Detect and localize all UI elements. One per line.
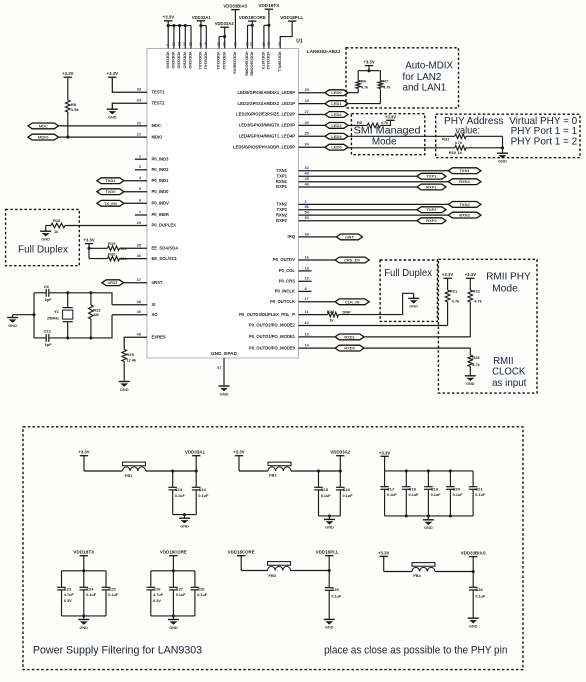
svg-text:P0_CRS: P0_CRS <box>279 279 295 284</box>
svg-text:VDD18CORE: VDD18CORE <box>245 52 250 77</box>
svg-text:P0_INCLK: P0_INCLK <box>275 289 295 294</box>
svg-text:TXD1: TXD1 <box>105 178 116 183</box>
svg-text:GND: GND <box>41 237 50 242</box>
svg-text:MDIO: MDIO <box>38 135 48 140</box>
power VDD18PLL output <box>316 550 339 572</box>
pin numbers VDD33IO 9 13 23 30 32 <box>166 42 193 46</box>
svg-text:0.1uF: 0.1uF <box>108 593 119 597</box>
svg-text:GND: GND <box>169 625 178 630</box>
svg-text:P0_COL: P0_COL <box>279 268 296 273</box>
svg-text:C17: C17 <box>387 486 395 491</box>
svg-text:13: 13 <box>171 42 175 46</box>
svg-text:RXP2: RXP2 <box>276 218 288 223</box>
wire crystal bottom right <box>68 315 112 338</box>
svg-text:RXN1: RXN1 <box>459 179 470 184</box>
svg-text:GND: GND <box>409 304 418 309</box>
svg-text:VDD18CORE: VDD18CORE <box>239 15 266 20</box>
svg-text:EE_SDA/SDA: EE_SDA/SDA <box>152 246 179 251</box>
wire TXP2 pin 56 <box>299 209 418 211</box>
svg-text:C16: C16 <box>343 487 351 492</box>
svg-text:4.7k: 4.7k <box>472 363 480 367</box>
svg-text:LED1/GPIO1/AMDIX2_LED1P: LED1/GPIO1/AMDIX2_LED1P <box>238 101 296 106</box>
svg-text:4.7uF: 4.7uF <box>153 593 164 597</box>
wire P0_IND3 stub pin 2 <box>135 158 147 160</box>
svg-text:SMI Managed: SMI Managed <box>354 126 421 137</box>
ground group2 <box>319 514 341 529</box>
capacitor C15 0.1uF <box>314 469 331 515</box>
svg-text:P0_IND3: P0_IND3 <box>152 156 170 161</box>
power VDD33BIAS output <box>461 551 486 574</box>
svg-text:VDD33A2: VDD33A2 <box>215 21 235 26</box>
svg-text:+3.3V: +3.3V <box>78 450 89 455</box>
power +3.3V FB2 input <box>233 450 244 471</box>
svg-text:17: 17 <box>305 296 309 301</box>
svg-text:LED3/GPIO3/MNGT0_LED3P: LED3/GPIO3/MNGT0_LED3P <box>239 123 296 128</box>
svg-text:R20: R20 <box>108 252 116 257</box>
svg-text:23: 23 <box>177 42 181 46</box>
IC U1 LAN9303 body <box>147 38 340 358</box>
svg-text:6pF: 6pF <box>45 343 52 347</box>
wire VDD18CORE bottom bus <box>151 614 195 617</box>
wire MDIO pin 21 <box>59 136 148 138</box>
svg-text:VDD33A1: VDD33A1 <box>203 52 208 71</box>
svg-text:Mode: Mode <box>492 284 518 295</box>
power +3.3V EEPROM pullups <box>83 237 94 258</box>
svg-text:GND: GND <box>180 524 189 529</box>
wire crystal left vertical <box>33 293 35 338</box>
svg-text:1M: 1M <box>93 312 99 317</box>
wire P0_OUTDV pin 16 <box>299 259 336 261</box>
svg-text:P0_OUTDV: P0_OUTDV <box>273 257 295 262</box>
svg-text:C20: C20 <box>453 486 461 491</box>
power +3.3V for TEST1 <box>107 71 118 77</box>
svg-text:RXP1: RXP1 <box>426 185 437 190</box>
svg-text:TXP1: TXP1 <box>426 174 437 179</box>
node MDC net tag <box>28 123 59 129</box>
node LED3 net tag <box>325 123 348 129</box>
ground C29 <box>324 619 335 629</box>
svg-text:51: 51 <box>266 42 270 46</box>
power +3.3V rail VDD33IO <box>163 15 191 26</box>
svg-text:0.1uF: 0.1uF <box>343 494 354 498</box>
svg-text:C21: C21 <box>475 486 483 491</box>
svg-text:RXD1: RXD1 <box>344 334 355 339</box>
svg-text:and LAN1: and LAN1 <box>403 82 447 93</box>
svg-text:VDD33A2: VDD33A2 <box>266 52 271 71</box>
svg-text:CRS_DV: CRS_DV <box>344 258 361 263</box>
svg-text:R31: R31 <box>442 137 450 142</box>
ground R25 <box>119 382 130 392</box>
svg-text:25MHz: 25MHz <box>47 316 59 320</box>
svg-text:P0_OUTD1/PO_MODE1: P0_OUTD1/PO_MODE1 <box>249 334 296 339</box>
wire TEST2 pin 34 <box>112 103 147 109</box>
crystal Y1 25MHz <box>47 291 73 339</box>
svg-text:VDD33IO: VDD33IO <box>177 52 182 69</box>
wire XI pin 38 <box>112 304 147 306</box>
svg-text:7: 7 <box>139 209 141 214</box>
svg-text:+3.3V: +3.3V <box>379 450 390 455</box>
resistor R9 4.7k SMI <box>348 120 391 128</box>
svg-text:4.7k: 4.7k <box>452 299 460 303</box>
power +3.3V FB1 input <box>78 450 89 471</box>
svg-text:0.1uF: 0.1uF <box>86 593 97 597</box>
capacitor C18 0.1uF <box>402 471 419 516</box>
svg-text:MDC: MDC <box>152 123 162 128</box>
wire P0_OUTD0 pin 14 <box>299 347 471 349</box>
node RXP1 net tag <box>417 184 446 190</box>
svg-text:C24: C24 <box>86 586 94 591</box>
svg-text:LED1: LED1 <box>331 101 342 106</box>
svg-text:R21: R21 <box>450 289 458 294</box>
power VDD18PLL <box>277 15 303 72</box>
ground R18 <box>40 226 51 242</box>
resistor R6 4.7k <box>348 71 369 93</box>
wire TXN2 pin 1 <box>299 203 449 205</box>
svg-text:P0_IND0: P0_IND0 <box>152 189 170 194</box>
ferrite bead FB2 <box>239 462 340 477</box>
svg-text:37: 37 <box>137 277 141 282</box>
svg-text:R10 1k: R10 1k <box>449 150 463 155</box>
svg-text:57: 57 <box>217 365 221 370</box>
capacitor C21 0.1uF <box>469 471 486 516</box>
ferrite bead FB4 <box>384 563 474 578</box>
svg-text:P0_INDV: P0_INDV <box>152 201 170 206</box>
power +3.3V FB4 input <box>378 550 389 571</box>
svg-text:41: 41 <box>278 42 282 46</box>
svg-text:nRST: nRST <box>152 280 163 285</box>
svg-text:nINT: nINT <box>345 234 354 239</box>
svg-text:TXN2: TXN2 <box>276 202 287 207</box>
svg-text:as input: as input <box>492 378 526 389</box>
wire P0_INDV pin 6 <box>124 202 147 204</box>
Full Duplex annotation box right <box>380 260 437 321</box>
svg-text:MDIO: MDIO <box>152 134 164 139</box>
svg-text:1k: 1k <box>54 229 59 234</box>
svg-text:LAN9303-ABZJ: LAN9303-ABZJ <box>307 49 341 54</box>
svg-text:VDD18PLL: VDD18PLL <box>277 52 282 73</box>
wire VDD18TX bottom bus <box>62 614 107 617</box>
node LED5 net tag <box>325 144 348 150</box>
capacitor C26 4.7uF <box>147 571 164 616</box>
wire GND_EPAD pin 57 <box>217 358 224 386</box>
svg-text:IRQ: IRQ <box>288 234 296 239</box>
node LED0 net tag <box>325 90 348 96</box>
wire LED5 pin 24 <box>299 146 326 148</box>
svg-text:TEST1: TEST1 <box>152 89 166 94</box>
power VDD18CORE caps <box>160 550 187 573</box>
svg-text:P0_DUPLEX: P0_DUPLEX <box>152 223 177 228</box>
wire P0_INER stub pin 7 <box>135 214 147 216</box>
svg-text:6pF: 6pF <box>45 298 52 302</box>
svg-text:R28: R28 <box>472 355 480 360</box>
svg-text:R18: R18 <box>53 218 61 223</box>
wire P0_OUTD1 pin 13 <box>299 336 471 338</box>
svg-text:R22: R22 <box>473 289 481 294</box>
svg-text:C18: C18 <box>409 486 417 491</box>
wire P0_IND1 pin 4 <box>124 180 147 182</box>
svg-text:VDD18TX: VDD18TX <box>261 52 266 70</box>
capacitor C6 6pF <box>34 284 68 302</box>
wire LED4 pin 25 <box>299 135 326 137</box>
svg-text:9: 9 <box>166 44 170 46</box>
node TXN1 net tag <box>448 168 481 174</box>
svg-text:56: 56 <box>233 42 237 46</box>
node LED2 net tag <box>325 112 348 118</box>
capacitor C23 4.7uF <box>57 571 74 616</box>
svg-text:VDD33IO: VDD33IO <box>182 52 187 69</box>
wire P0_OUTCLK pin 17 <box>299 301 336 303</box>
svg-text:TXP2: TXP2 <box>426 207 437 212</box>
wire P0_OUTD2 pin 12 <box>299 325 448 327</box>
wire P0_INCLK stub pin 8 <box>299 290 312 292</box>
svg-text:RXN2: RXN2 <box>276 212 288 217</box>
svg-text:48: 48 <box>261 42 265 46</box>
svg-text:TXP1: TXP1 <box>277 173 288 178</box>
wire XO pin 40 <box>112 314 147 316</box>
node CLK_IN net tag <box>335 299 369 305</box>
svg-text:Full Duplex: Full Duplex <box>18 245 69 256</box>
power VDD33A2 <box>215 21 235 70</box>
RMII PHY Mode annotation box <box>438 259 537 393</box>
svg-text:place as close as possible to: place as close as possible to the PHY pi… <box>324 645 507 657</box>
svg-text:VDD33IO: VDD33IO <box>165 52 170 69</box>
node RXD0 net tag <box>335 345 364 351</box>
power +3.3V SMI <box>385 114 396 120</box>
svg-text:LED3: LED3 <box>331 123 342 128</box>
power VDD18TX <box>73 550 94 573</box>
wire LED2 pin 27 <box>299 114 326 116</box>
pin names VDD33IO rotated <box>165 52 193 69</box>
svg-text:20: 20 <box>137 220 141 225</box>
svg-text:47: 47 <box>204 42 208 46</box>
node TXD0 net tag <box>97 189 124 195</box>
svg-text:XO: XO <box>152 312 159 317</box>
svg-text:FB1: FB1 <box>125 473 133 478</box>
svg-text:+3.3V: +3.3V <box>378 550 389 555</box>
wire MDC pin 22 <box>59 125 148 127</box>
svg-text:C19: C19 <box>431 486 439 491</box>
IC right pin name labels <box>233 90 296 350</box>
svg-text:52: 52 <box>217 42 221 46</box>
svg-text:P0_INER: P0_INER <box>152 212 169 217</box>
capacitor C30 0.1uF <box>469 572 486 619</box>
power +3.3V R22 <box>465 272 476 290</box>
svg-text:TXP2: TXP2 <box>277 207 288 212</box>
node RXN1 net tag <box>448 179 481 185</box>
svg-text:GND: GND <box>424 525 433 530</box>
svg-text:RXN2: RXN2 <box>459 213 470 218</box>
svg-text:0.1uF: 0.1uF <box>175 494 186 498</box>
svg-text:VDD33BIAS: VDD33BIAS <box>461 551 486 556</box>
svg-text:P0_OUTD3/DUPLEX_POL_P: P0_OUTD3/DUPLEX_POL_P <box>239 312 295 317</box>
capacitor C19 0.1uF <box>424 471 441 516</box>
wire VDD33IO pin drops <box>167 24 191 48</box>
svg-text:Mode: Mode <box>372 136 397 147</box>
svg-text:FB2: FB2 <box>269 473 277 478</box>
wire cap bank bottom bus <box>385 514 474 517</box>
power +3.3V R21 <box>442 272 453 290</box>
svg-text:+3.3V: +3.3V <box>363 60 374 65</box>
svg-text:GND: GND <box>220 391 229 396</box>
svg-text:C26: C26 <box>153 586 161 591</box>
svg-text:VDD18PLL: VDD18PLL <box>280 15 303 20</box>
power VDD33BIAS <box>223 4 247 75</box>
svg-text:VDD18PLL: VDD18PLL <box>316 550 339 555</box>
svg-text:RXD0: RXD0 <box>344 346 355 351</box>
ground TEST2 <box>107 109 118 119</box>
svg-text:VDD18CORE: VDD18CORE <box>160 550 187 555</box>
svg-text:CLK_IN: CLK_IN <box>345 299 360 304</box>
svg-text:VDD33A1: VDD33A1 <box>198 52 203 71</box>
svg-text:12.4k: 12.4k <box>127 358 137 362</box>
svg-text:GND: GND <box>466 381 475 386</box>
power +3.3V cap bank <box>379 450 390 471</box>
svg-text:XI: XI <box>152 302 156 307</box>
svg-text:0.1uF: 0.1uF <box>321 494 332 498</box>
svg-text:EE_SCL/SCL: EE_SCL/SCL <box>152 256 178 261</box>
svg-text:P0_IND1: P0_IND1 <box>152 178 170 183</box>
svg-text:C13: C13 <box>175 487 183 492</box>
power VDD18TX <box>258 3 279 70</box>
wire LED3 pin 26 <box>299 124 326 126</box>
svg-text:C14: C14 <box>198 487 206 492</box>
svg-text:Power Supply Filtering for LA: Power Supply Filtering for LAN9303 <box>33 645 202 657</box>
svg-text:P0_OUTD0/PO_MODE0: P0_OUTD0/PO_MODE0 <box>249 345 296 350</box>
svg-text:VDD33A1: VDD33A1 <box>192 15 212 20</box>
ground cap bank <box>423 516 434 530</box>
svg-text:6.3V: 6.3V <box>64 599 72 603</box>
svg-text:40: 40 <box>137 309 141 314</box>
resistor R19 10k EE_SDA <box>89 241 147 251</box>
Full Duplex annotation box left <box>6 209 80 265</box>
wire nRST pin 37 <box>124 282 148 284</box>
svg-text:MDC: MDC <box>39 123 48 128</box>
svg-text:RMII PHY: RMII PHY <box>486 271 531 282</box>
svg-text:LED2: LED2 <box>331 112 342 117</box>
svg-text:TXN1: TXN1 <box>276 168 287 173</box>
svg-text:4.7k: 4.7k <box>474 299 482 303</box>
svg-text:GND: GND <box>108 115 117 120</box>
svg-text:+3.3V: +3.3V <box>442 272 453 277</box>
svg-text:+3.3V: +3.3V <box>233 450 244 455</box>
svg-text:RXP2: RXP2 <box>426 218 437 223</box>
node TXP1 net tag <box>417 173 446 179</box>
svg-text:+3.3V: +3.3V <box>163 15 174 20</box>
wire VDD18CORE top bus <box>151 570 195 572</box>
svg-text:VDD33A2: VDD33A2 <box>222 52 227 71</box>
wire cap bank top bus <box>385 469 474 472</box>
svg-text:4.7k: 4.7k <box>361 86 369 90</box>
svg-text:TX_EN: TX_EN <box>104 201 117 206</box>
svg-text:Full Duplex: Full Duplex <box>384 268 433 279</box>
svg-text:VDD33IO: VDD33IO <box>188 52 193 69</box>
svg-text:+3.3V: +3.3V <box>107 71 118 76</box>
svg-text:RMII: RMII <box>493 356 513 367</box>
capacitor C13 0.1uF <box>168 469 185 514</box>
svg-text:nRST: nRST <box>108 280 119 285</box>
svg-text:VDD33A1: VDD33A1 <box>185 450 206 455</box>
svg-text:GND_EPAD: GND_EPAD <box>211 351 237 356</box>
svg-text:C25: C25 <box>108 586 116 591</box>
svg-text:GND: GND <box>469 624 478 629</box>
resistor R18 1k P0_DUPLEX <box>46 218 65 234</box>
resistor R28 4.7k <box>468 348 481 376</box>
svg-text:TXN2: TXN2 <box>459 202 470 207</box>
PHY Address annotation box <box>436 114 580 158</box>
ferrite bead FB1 <box>84 462 196 478</box>
resistor R24 1k DNP <box>299 309 352 322</box>
capacitor C20 0.1uF <box>446 471 463 516</box>
svg-text:LED0: LED0 <box>331 90 342 95</box>
wire RXP2 pin 53 <box>299 220 418 222</box>
power VDD33A2 output <box>330 450 351 473</box>
node MDIO net tag <box>28 134 59 140</box>
svg-text:R9: R9 <box>357 120 363 125</box>
wire TEST1 pin 33 <box>112 77 147 92</box>
svg-text:PHY Port 1 = 2: PHY Port 1 = 2 <box>511 137 578 148</box>
ground group1 <box>173 513 197 528</box>
svg-text:GND: GND <box>79 625 88 630</box>
capacitor C24 0.1uF <box>80 571 97 616</box>
capacitor C25 0.1uF <box>102 571 119 616</box>
svg-text:VDD33BIAS: VDD33BIAS <box>223 4 247 9</box>
svg-text:GND: GND <box>8 323 17 328</box>
wire TXN1 pin 42 <box>299 170 449 172</box>
svg-text:VDD33IO: VDD33IO <box>171 52 176 69</box>
svg-text:DNP: DNP <box>342 310 351 315</box>
svg-text:0.1uF: 0.1uF <box>475 594 486 598</box>
svg-text:C30: C30 <box>475 587 483 592</box>
svg-text:C6: C6 <box>44 284 50 289</box>
power VDD18CORE FB3 input <box>228 550 255 571</box>
svg-text:VDD18CORE: VDD18CORE <box>228 550 255 555</box>
svg-text:+3.3V: +3.3V <box>385 114 396 119</box>
svg-text:GND: GND <box>325 625 334 630</box>
svg-text:LED2/GPIO2/E2PSIZE_LED2P: LED2/GPIO2/E2PSIZE_LED2P <box>236 112 295 117</box>
ground crystal <box>7 313 35 328</box>
capacitor C16 0.1uF <box>336 471 353 516</box>
node CRS_DV net tag <box>335 257 369 263</box>
svg-text:LED0/GPIO0/AMDIX1_LED0P: LED0/GPIO0/AMDIX1_LED0P <box>238 90 296 95</box>
svg-text:0.1uF: 0.1uF <box>387 493 398 497</box>
resistor R23 1M <box>89 291 102 339</box>
svg-text:C23: C23 <box>64 586 72 591</box>
svg-text:P0_OUTCLK: P0_OUTCLK <box>270 299 295 304</box>
capacitor C29 0.1uF <box>325 571 342 620</box>
svg-text:TXN1: TXN1 <box>459 168 470 173</box>
svg-text:GND: GND <box>325 525 334 530</box>
node LED1 net tag <box>325 101 348 107</box>
svg-text:+3.3V: +3.3V <box>83 237 94 242</box>
svg-text:32: 32 <box>188 42 192 46</box>
svg-text:FB3: FB3 <box>269 573 277 578</box>
Power Supply Filtering annotation box <box>23 427 523 670</box>
node TXN2 net tag <box>448 202 481 208</box>
power VDD33A1 <box>192 15 212 70</box>
svg-text:C28: C28 <box>197 586 205 591</box>
svg-text:4.7k: 4.7k <box>381 121 389 125</box>
svg-text:0.1uF: 0.1uF <box>176 593 187 597</box>
resistor R22 4.7k <box>468 289 483 337</box>
svg-text:0.1uF: 0.1uF <box>409 493 420 497</box>
resistor R31 4.7k LED4 line <box>348 134 503 148</box>
node RXP2 net tag <box>417 218 446 224</box>
svg-text:0.1uF: 0.1uF <box>431 493 442 497</box>
svg-text:RXP1: RXP1 <box>276 184 288 189</box>
node nINT net tag <box>336 234 362 240</box>
svg-text:0.1uF: 0.1uF <box>197 593 208 597</box>
resistor R25 12.4k <box>122 350 137 382</box>
